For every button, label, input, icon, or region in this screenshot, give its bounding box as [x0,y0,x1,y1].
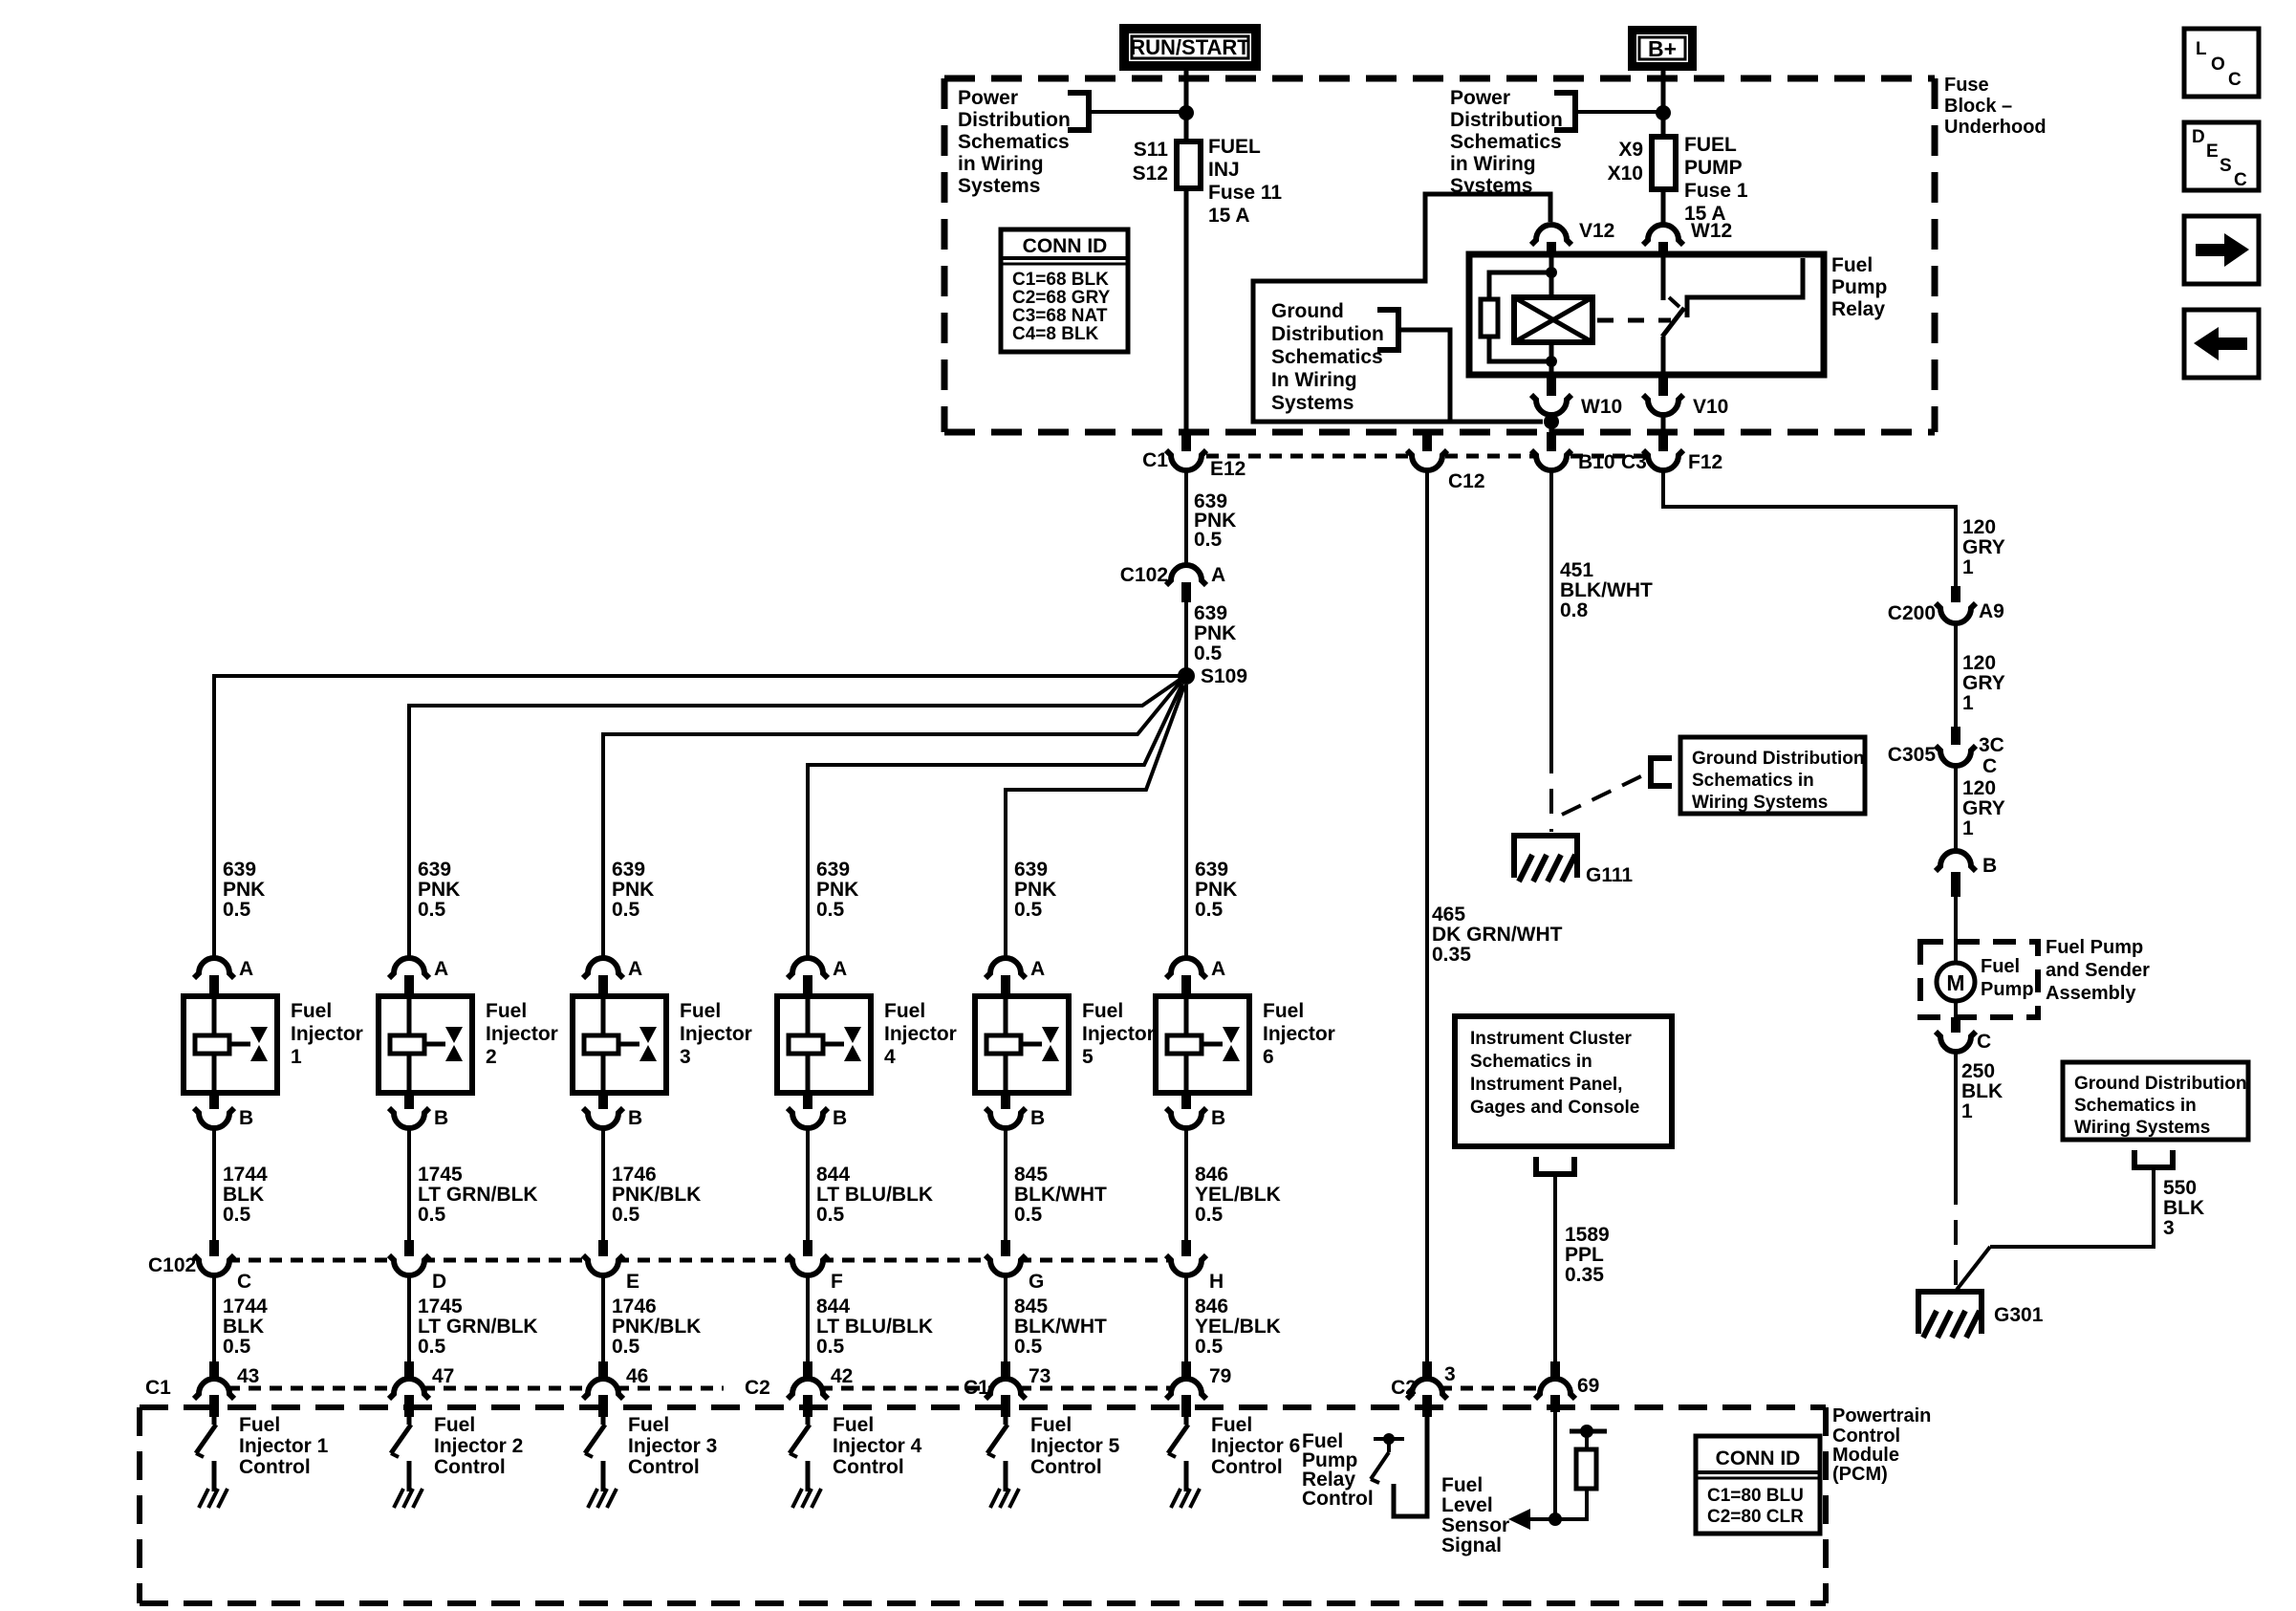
label W10 [1581,396,1622,418]
label Fuel Injector 5 [1082,1000,1155,1068]
connector PCM pin 43 [194,1361,234,1417]
svg-text:W12: W12 [1691,220,1732,242]
svg-text:1744: 1744 [223,1164,268,1186]
label W12 [1691,220,1732,242]
wire S109 to injector 3 column [603,682,1180,956]
wire C102 to PCM pin 79 [1184,1276,1188,1361]
wire injector 5 to C102 [1004,1129,1007,1240]
svg-text:PNK: PNK [612,879,654,901]
connector C102 G [986,1240,1026,1275]
svg-text:BLK: BLK [223,1184,264,1206]
fuel level sensor signal arrow [1508,1509,1555,1530]
label Fuel Pump (inside box) [1981,956,2034,1000]
svg-text:Instrument Panel,: Instrument Panel, [1470,1075,1622,1095]
svg-text:120: 120 [1962,777,1996,799]
fuel injector 4 solenoid [789,996,844,1093]
label B (injector 2) [434,1107,448,1129]
wire relay switch to V10 [1661,337,1666,375]
svg-text:Control: Control [434,1456,506,1478]
connector C102 H [1166,1240,1206,1275]
relay switch fixed contact from W12 [1661,254,1666,300]
label B (injector 6) [1211,1107,1225,1129]
svg-text:120: 120 [1962,652,1996,674]
svg-text:844: 844 [816,1164,850,1186]
svg-text:PNK: PNK [1194,622,1236,644]
svg-text:0.35: 0.35 [1432,944,1471,966]
connector PCM pin 47 [389,1361,429,1417]
svg-text:Ground: Ground [1271,300,1344,322]
svg-text:Schematics: Schematics [958,131,1070,153]
svg-text:3C: 3C [1979,734,2004,756]
svg-text:Block –: Block – [1944,96,2012,117]
fuel pump motor [1937,963,1975,1001]
label 844 LT BLU/BLK 0.5 (below C102, injector 4) [816,1295,933,1358]
svg-text:PNK: PNK [1195,879,1237,901]
svg-text:YEL/BLK: YEL/BLK [1195,1316,1281,1338]
svg-text:Ground Distribution: Ground Distribution [1692,749,1864,769]
label C2 (PCM pin 3) [1391,1377,1417,1399]
svg-text:C: C [2234,170,2247,190]
svg-text:C: C [1977,1031,1991,1053]
svg-text:Level: Level [1441,1494,1493,1516]
wire C102 to PCM pin 42 [806,1276,810,1361]
svg-text:1: 1 [1962,556,1974,578]
label 845 BLK/WHT 0.5 (above C102, injector 5) [1014,1164,1107,1226]
svg-text:0.5: 0.5 [1195,899,1224,921]
PCM fuel injector 6 driver switch [1168,1417,1188,1491]
svg-text:V10: V10 [1693,396,1728,418]
PCM fuel injector 2 driver switch [391,1417,411,1491]
svg-text:Control: Control [239,1456,311,1478]
label Fuel Injector 2 Control [434,1414,523,1478]
svg-text:S11: S11 [1134,139,1169,161]
label 73 (PCM pin) [1029,1365,1051,1387]
svg-text:C2=80 CLR: C2=80 CLR [1707,1507,1804,1527]
svg-text:Control: Control [1302,1488,1374,1510]
connector B injector 3 [583,1093,623,1128]
svg-text:E12: E12 [1210,458,1245,480]
svg-text:PNK/BLK: PNK/BLK [612,1184,701,1206]
label 1746 PNK/BLK 0.5 (above C102, injector 3) [612,1164,701,1226]
svg-text:A: A [434,958,448,980]
svg-text:1746: 1746 [612,1295,657,1317]
svg-text:Distribution: Distribution [1450,109,1563,131]
label B10 [1578,451,1615,473]
svg-text:Injector 4: Injector 4 [833,1435,922,1457]
connector PCM pin 69 [1535,1361,1575,1412]
connector V12 [1531,225,1571,254]
svg-text:FUEL: FUEL [1684,134,1737,156]
svg-text:H: H [1209,1271,1224,1293]
svg-text:639: 639 [223,859,256,881]
ground symbol PCM injector 6 driver [1171,1489,1200,1508]
svg-text:C2: C2 [745,1377,770,1399]
label 69 (PCM pin) [1577,1375,1599,1397]
svg-text:Fuel: Fuel [1211,1414,1252,1436]
svg-text:1744: 1744 [223,1295,268,1317]
connector W10 [1531,375,1571,415]
label Fuel Injector 1 [291,1000,363,1068]
relay resistor branch lower wire [1489,337,1551,361]
label 844 LT BLU/BLK 0.5 (above C102, injector 4) [816,1164,933,1226]
relay actuation dashed link [1597,318,1671,323]
fuel injector 2 box [379,996,472,1093]
label G111 [1586,864,1633,886]
fuel injector 4 box [777,996,871,1093]
svg-text:C: C [237,1271,251,1293]
svg-text:639: 639 [612,859,645,881]
label FUEL INJ Fuse 11 15 A [1208,136,1282,227]
connector PCM pin 73 [986,1361,1026,1417]
connector PCM pin 42 [788,1361,828,1417]
svg-text:C102: C102 [148,1254,196,1276]
label C (C102) [237,1271,251,1293]
wire fuse block internal bus V12 to B10 junction [1253,194,1550,422]
label F12 [1688,451,1722,473]
svg-text:Injector 5: Injector 5 [1030,1435,1120,1457]
svg-text:Power: Power [1450,87,1510,109]
svg-text:Schematics: Schematics [1450,131,1562,153]
wire B to fuel pump motor [1954,897,1958,964]
svg-text:451: 451 [1560,559,1593,581]
connector B injector 1 [194,1093,234,1128]
connector C102 E [583,1240,623,1275]
fuel injector 3 box [573,996,666,1093]
label C1 (PCM row injector 5) [964,1377,989,1399]
wire fuel pump to C [1954,1001,1958,1031]
label C2 (PCM row injector 4) [745,1377,770,1399]
connector dashed line C102 row [227,1258,1173,1263]
svg-text:846: 846 [1195,1295,1228,1317]
svg-text:in Wiring: in Wiring [958,153,1044,175]
svg-text:PNK: PNK [418,879,460,901]
PCM fuel injector 4 driver switch [790,1417,810,1491]
svg-text:GRY: GRY [1962,536,2005,558]
svg-text:0.5: 0.5 [1194,642,1223,664]
wire S109 to injector 5 column [1006,686,1184,956]
label 639 PNK 0.5 (injector 6) [1195,859,1237,921]
label Fuel Pump and Sender Assembly [2046,937,2150,1004]
svg-text:0.5: 0.5 [223,899,251,921]
svg-text:845: 845 [1014,1164,1048,1186]
label Fuel Pump Relay [1831,254,1887,320]
svg-text:Instrument Cluster: Instrument Cluster [1470,1029,1633,1049]
svg-text:BLK/WHT: BLK/WHT [1560,579,1653,601]
svg-text:0.5: 0.5 [1014,1336,1043,1358]
svg-text:FUEL: FUEL [1208,136,1261,158]
svg-text:Wiring Systems: Wiring Systems [1692,793,1828,813]
svg-text:0.5: 0.5 [418,1336,446,1358]
svg-text:Schematics in: Schematics in [2074,1096,2197,1116]
svg-text:0.5: 0.5 [223,1204,251,1226]
connector A injector 3 [583,958,623,996]
fuel injector 1 solenoid [195,996,250,1093]
connector C12 [1407,432,1447,470]
connector C102 F [788,1240,828,1275]
svg-text:0.5: 0.5 [816,1336,845,1358]
svg-text:BLK: BLK [2163,1197,2204,1219]
svg-text:Power: Power [958,87,1018,109]
svg-text:Fuel: Fuel [1082,1000,1123,1022]
svg-text:Gages and Console: Gages and Console [1470,1098,1639,1118]
svg-text:F12: F12 [1688,451,1722,473]
svg-text:E: E [626,1271,639,1293]
svg-text:C4=8 BLK: C4=8 BLK [1012,324,1099,344]
svg-text:BLK/WHT: BLK/WHT [1014,1184,1107,1206]
ground symbol PCM injector 4 driver [792,1489,821,1508]
svg-text:Powertrain: Powertrain [1832,1405,1931,1426]
svg-text:Fuel: Fuel [680,1000,721,1022]
svg-text:Injector: Injector [1082,1023,1155,1045]
power node RUN/START box [1119,24,1261,71]
svg-text:S12: S12 [1133,163,1168,185]
callout bracket ground distribution (fuse block) [1377,310,1398,350]
ground symbol PCM injector 2 driver [394,1489,422,1508]
svg-text:15 A: 15 A [1208,205,1250,227]
wire C200 to C305 [1954,623,1958,727]
connector dashed line PCM C1/C2 row [227,1386,1541,1391]
svg-text:G: G [1029,1271,1044,1293]
label D (C102) [432,1271,446,1293]
relay resistor branch upper wire [1489,272,1551,299]
connector B injector 2 [389,1093,429,1128]
label 1744 BLK 0.5 (below C102, injector 1) [223,1295,268,1358]
svg-text:844: 844 [816,1295,850,1317]
svg-text:42: 42 [831,1365,853,1387]
callout bracket power distribution right [1554,93,1575,130]
label 120 GRY 1 (lower) [1962,777,2005,839]
power node B+ box [1628,26,1697,71]
label 43 (PCM pin) [237,1365,259,1387]
svg-text:1746: 1746 [612,1164,657,1186]
junction dot relay coil bottom [1546,356,1557,367]
svg-text:YEL/BLK: YEL/BLK [1195,1184,1281,1206]
svg-text:M: M [1946,970,1964,995]
svg-text:0.5: 0.5 [418,899,446,921]
label 639 PNK 0.5 (injector 1) [223,859,265,921]
connector PCM pin 46 [583,1361,623,1417]
svg-text:G111: G111 [1586,864,1633,886]
svg-text:639: 639 [1194,602,1227,624]
fuse S11 S12 FUEL INJ Fuse 11 15A [1177,142,1201,188]
svg-text:Fuel: Fuel [884,1000,925,1022]
connector A injector 5 [986,958,1026,996]
ground distribution schematics box (G301) [2063,1062,2248,1140]
connector C305 3C C [1936,727,1976,766]
relay switch blade [1662,297,1684,337]
svg-text:In Wiring: In Wiring [1271,369,1357,391]
svg-text:Assembly: Assembly [2046,983,2136,1004]
svg-text:0.5: 0.5 [1195,1336,1224,1358]
fuel injector 3 solenoid [584,996,639,1093]
junction dot on B+ wire [1656,105,1671,120]
bracket below ground distribution box (G301) [2134,1150,2173,1167]
svg-text:1: 1 [291,1046,302,1068]
label 1745 LT GRN/BLK 0.5 (below C102, injector 2) [418,1295,538,1358]
svg-text:0.5: 0.5 [612,1204,640,1226]
svg-text:F: F [831,1271,843,1293]
fuel injector 2 solenoid [390,996,445,1093]
label G301 [1994,1304,2044,1326]
label 639 PNK 0.5 (injector 5) [1014,859,1056,921]
svg-text:B: B [434,1107,448,1129]
connector C (fuel pump) [1936,1017,1976,1052]
svg-text:1: 1 [1962,817,1974,839]
svg-text:Underhood: Underhood [1944,117,2047,138]
wire PCM pin 3 to relay driver [1394,1417,1427,1516]
splice S109 [1178,667,1195,685]
callout bracket power distribution left [1068,93,1089,130]
label 465 DK GRN/WHT 0.35 [1432,903,1563,966]
svg-text:Distribution: Distribution [958,109,1071,131]
fuel injector 1 valve [250,1027,268,1061]
svg-text:C2=68 GRY: C2=68 GRY [1012,288,1111,308]
svg-text:G301: G301 [1994,1304,2044,1326]
label S109 [1201,665,1247,687]
svg-text:X9: X9 [1618,139,1643,161]
wire C102 to PCM pin 47 [407,1276,411,1361]
label Fuel Injector 5 Control [1030,1414,1120,1478]
connector B injector 5 [986,1093,1026,1128]
icon box left arrow [2184,310,2259,378]
svg-text:Systems: Systems [958,175,1040,197]
svg-text:S: S [2220,156,2232,176]
fuel injector 5 valve [1042,1027,1059,1061]
svg-text:Injector 3: Injector 3 [628,1435,717,1457]
svg-text:69: 69 [1577,1375,1599,1397]
svg-text:B: B [628,1107,642,1129]
CONN ID table (PCM) [1696,1436,1820,1534]
svg-text:Fuel: Fuel [486,1000,527,1022]
connector B10 [1531,432,1571,470]
wire C102 to PCM pin 46 [601,1276,605,1361]
svg-text:PUMP: PUMP [1684,157,1743,179]
svg-text:in Wiring: in Wiring [1450,153,1536,175]
label Fuel Injector 4 [884,1000,957,1068]
svg-text:D: D [432,1271,446,1293]
ground symbol PCM injector 5 driver [990,1489,1019,1508]
label G (C102) [1029,1271,1044,1293]
svg-text:3: 3 [1444,1363,1456,1385]
svg-text:O: O [2211,54,2225,75]
svg-text:A: A [628,958,642,980]
dashed wire 451 lead to G111 [1549,749,1553,832]
label Fuse Block - Underhood [1944,75,2047,138]
connector B injector 6 [1166,1093,1206,1128]
svg-text:1745: 1745 [418,1295,463,1317]
relay coil box with X [1514,297,1592,342]
svg-text:X10: X10 [1608,163,1643,185]
wire B+ to fuse 1 [1661,71,1666,139]
wire resistor to signal junction [1555,1489,1587,1519]
svg-text:BLK: BLK [223,1316,264,1338]
label Fuel Level Sensor Signal [1441,1474,1509,1557]
svg-text:S109: S109 [1201,665,1247,687]
svg-text:0.5: 0.5 [1014,1204,1043,1226]
svg-text:V12: V12 [1579,220,1614,242]
svg-text:C102: C102 [1120,564,1168,586]
svg-text:639: 639 [418,859,451,881]
wire bracket to RUN/START wire [1089,110,1186,114]
label A (injector 2) [434,958,448,980]
label C1 (PCM row injector 1) [145,1377,171,1399]
ground symbol PCM injector 3 driver [588,1489,617,1508]
svg-text:B: B [1030,1107,1045,1129]
wire W10 to B10 junction [1549,413,1554,432]
svg-text:C200: C200 [1888,602,1936,624]
svg-text:Fuse: Fuse [1944,75,1989,96]
svg-text:PNK: PNK [223,879,265,901]
label C (C305) [1982,755,1997,777]
label C305 [1888,744,1937,766]
label Fuel Injector 6 [1263,1000,1335,1068]
wire 550 BLK to G301 [1957,1167,2154,1290]
svg-text:PNK/BLK: PNK/BLK [612,1316,701,1338]
label 846 YEL/BLK 0.5 (above C102, injector 6) [1195,1164,1281,1226]
svg-text:PPL: PPL [1565,1244,1604,1266]
label Fuel Pump Relay Control [1302,1430,1374,1510]
svg-text:L: L [2196,39,2207,59]
svg-text:Fuel: Fuel [434,1414,475,1436]
wire relay coil feed [1549,254,1554,299]
junction dot W10 B10 [1544,414,1559,429]
svg-text:CONN ID: CONN ID [1023,235,1108,257]
label 639 PNK 0.5 (upper) [1194,490,1236,551]
svg-text:845: 845 [1014,1295,1048,1317]
svg-text:5: 5 [1082,1046,1094,1068]
label A (injector 6) [1211,958,1225,980]
svg-text:DK GRN/WHT: DK GRN/WHT [1432,924,1563,946]
label A (injector 1) [239,958,253,980]
svg-text:Fuel Pump: Fuel Pump [2046,937,2143,958]
label C200 [1888,602,1936,624]
wire S109 to injector 1 column [214,676,1179,956]
connector C102 A [1166,565,1206,602]
svg-text:43: 43 [237,1365,259,1387]
svg-text:B: B [239,1107,253,1129]
svg-text:Module: Module [1832,1445,1899,1466]
wire injector 1 to C102 [212,1129,216,1240]
bracket below instrument cluster box [1536,1157,1574,1174]
label A (injector 3) [628,958,642,980]
label 46 (PCM pin) [626,1365,648,1387]
svg-text:0.5: 0.5 [816,1204,845,1226]
ground distribution schematics box (G111) [1680,737,1865,814]
connector B injector 4 [788,1093,828,1128]
wire C102 to PCM pin 73 [1004,1276,1007,1361]
label C102 (harness row) [148,1254,196,1276]
label A (injector 5) [1030,958,1045,980]
svg-text:BLK: BLK [1961,1080,2003,1102]
svg-text:3: 3 [2163,1217,2175,1239]
svg-text:B: B [833,1107,847,1129]
svg-text:B: B [1982,855,1997,877]
svg-text:Injector 2: Injector 2 [434,1435,523,1457]
connector W12 [1643,225,1683,254]
label 3 (PCM pin) [1444,1363,1456,1385]
svg-text:79: 79 [1209,1365,1231,1387]
powertrain control module dashed border [140,1407,1826,1603]
svg-text:B: B [1211,1107,1225,1129]
label 845 BLK/WHT 0.5 (below C102, injector 5) [1014,1295,1107,1358]
svg-text:1589: 1589 [1565,1224,1610,1246]
svg-text:and Sender: and Sender [2046,960,2150,981]
PCM fuel pump relay driver switch [1371,1433,1404,1483]
wire injector 2 to C102 [407,1129,411,1240]
label E (C102) [626,1271,639,1293]
svg-text:C2: C2 [1391,1377,1417,1399]
svg-text:RUN/START: RUN/START [1130,35,1250,59]
